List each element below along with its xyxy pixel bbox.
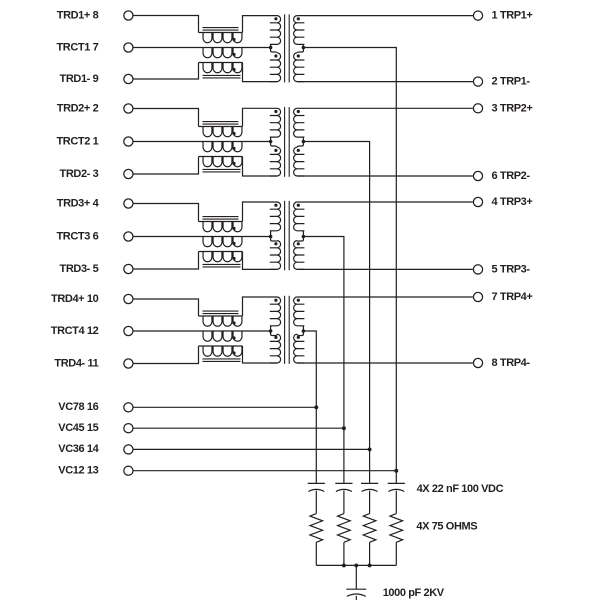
- choke CM3 core bottom bars: [203, 263, 241, 265]
- svg-text:4X 75 OHMS: 4X 75 OHMS: [416, 521, 477, 533]
- resistor R4 (75 ohms): [390, 514, 403, 543]
- wire TRD2+ lead: [134, 109, 199, 127]
- wire common bus: [316, 564, 396, 566]
- terminal TRD2- pin 3: [124, 169, 133, 178]
- choke CM4 polarity dots: [232, 321, 235, 324]
- wire T1 secondary top to terminal: [297, 15, 473, 17]
- svg-text:5 TRP3-: 5 TRP3-: [492, 263, 531, 275]
- wire C5 bottom lead: [355, 596, 357, 600]
- svg-text:TRD3- 5: TRD3- 5: [60, 263, 99, 275]
- transformer T3 core: [284, 201, 286, 270]
- choke CM2 top winding: [199, 127, 243, 137]
- transformer T4 secondary winding: [294, 297, 305, 363]
- capacitor C5 (1000 pF 2KV): [346, 588, 366, 590]
- wire T1 secondary bottom to terminal: [297, 81, 473, 83]
- svg-text:6 TRP2-: 6 TRP2-: [492, 170, 531, 182]
- svg-text:1000 pF 2KV: 1000 pF 2KV: [383, 587, 445, 599]
- wire T4 secondary top to terminal: [297, 296, 473, 298]
- wire T3 secondary bottom to terminal: [297, 268, 473, 270]
- terminal VC12 13: [124, 466, 133, 475]
- wire T2 secondary bottom to terminal: [297, 175, 473, 177]
- terminal 3 pin TRP2+: [473, 104, 482, 113]
- choke CM4 core bottom bars: [203, 358, 241, 360]
- wire choke CM3 to transformer T3 bottom: [243, 252, 278, 270]
- wire TRD1- lead: [134, 63, 199, 80]
- wire choke CM2 to transformer T2 top: [243, 108, 278, 126]
- wire cap C3 to resistor R3: [369, 491, 371, 514]
- capacitor C1 (22 nF): [308, 482, 325, 484]
- choke CM2 polarity dots: [232, 132, 235, 135]
- wire cap C4 to resistor R4: [395, 491, 397, 514]
- terminal TRD4- pin 11: [124, 359, 133, 368]
- svg-text:TRD2- 3: TRD2- 3: [60, 168, 99, 180]
- svg-text:TRCT1 7: TRCT1 7: [56, 41, 98, 53]
- svg-text:3 TRP2+: 3 TRP2+: [492, 102, 533, 114]
- transformer T3 secondary dots: [297, 204, 300, 207]
- junction VC78: [314, 405, 318, 409]
- choke CM1 top winding: [199, 33, 243, 43]
- transformer T4 primary dots: [274, 299, 277, 302]
- wire TRD3- lead: [134, 252, 199, 270]
- transformer T1 core: [284, 14, 286, 82]
- svg-text:TRD2+ 2: TRD2+ 2: [57, 102, 99, 114]
- svg-text:TRD1- 9: TRD1- 9: [60, 73, 99, 85]
- wire resistor R1 to bus: [315, 542, 317, 565]
- transformer T2 secondary dots: [297, 110, 300, 113]
- wire resistor R3 to bus: [369, 542, 371, 565]
- wire VC78 lead: [134, 406, 317, 408]
- wire choke CM4 to transformer T4 top: [243, 297, 278, 316]
- choke CM2 core top bars: [203, 121, 239, 123]
- svg-text:TRD1+ 8: TRD1+ 8: [57, 9, 99, 21]
- wire T4 secondary bottom to terminal: [297, 362, 473, 364]
- choke CM4 top winding: [199, 316, 243, 326]
- wire TRD4- lead: [134, 346, 199, 364]
- choke CM1 bottom winding: [199, 63, 243, 73]
- transformer T1 primary dots: [274, 17, 277, 20]
- terminal TRD4+ pin 10: [124, 294, 133, 303]
- svg-text:TRD4+ 10: TRD4+ 10: [51, 293, 99, 305]
- choke CM1 core top bars: [203, 27, 239, 29]
- junction bus-R3: [368, 563, 372, 567]
- wire VC45 lead: [134, 427, 344, 429]
- transformer T1 secondary dots: [297, 17, 300, 20]
- junction bus-R2: [342, 563, 346, 567]
- terminal 6 TRP2-: [473, 171, 482, 180]
- wire T3 secondary center tap drop: [303, 237, 344, 484]
- wire choke CM1 to transformer T1 bottom: [243, 63, 278, 82]
- wire TRD2- lead: [134, 157, 199, 175]
- choke CM3 bottom winding: [199, 252, 243, 262]
- junction VC45: [342, 426, 346, 430]
- terminal 8 TRP4-: [473, 358, 482, 367]
- transformer T2 primary dots: [274, 110, 277, 113]
- terminal TRCT2 pin 1: [124, 137, 133, 146]
- terminal 4 pin TRP3+: [473, 197, 482, 206]
- transformer T3 primary winding: [270, 202, 281, 269]
- transformer T3 secondary winding: [294, 202, 305, 269]
- junction VC12: [394, 469, 398, 473]
- junction VC36: [368, 447, 372, 451]
- svg-text:2 TRP1-: 2 TRP1-: [492, 76, 531, 88]
- wire TRD1+ lead: [134, 16, 199, 33]
- wire T4 secondary center tap drop: [303, 331, 316, 483]
- resistor R1 (75 ohms): [310, 514, 323, 543]
- wire T2 secondary center tap drop: [303, 142, 369, 484]
- terminal 2 TRP1-: [473, 77, 482, 86]
- choke CM3 polarity dots: [232, 227, 235, 230]
- capacitor C3 (22 nF): [361, 482, 378, 484]
- wire T3 secondary top to terminal: [297, 201, 473, 203]
- choke CM3 middle winding (TRCT3 line): [134, 237, 271, 247]
- svg-text:TRCT4 12: TRCT4 12: [51, 325, 99, 337]
- capacitor C2 (22 nF): [335, 482, 352, 484]
- wire cap C1 to resistor R1: [315, 491, 317, 514]
- terminal TRD3+ pin 4: [124, 199, 133, 208]
- choke CM2 middle winding (TRCT2 line): [134, 142, 271, 152]
- terminal VC78 16: [124, 403, 133, 412]
- choke CM1 core bottom bars: [203, 74, 241, 76]
- wire choke CM4 to transformer T4 bottom: [243, 346, 278, 363]
- terminal TRD2+ pin 2: [124, 104, 133, 113]
- transformer T1 secondary winding: [294, 16, 305, 82]
- wire choke CM2 to transformer T2 bottom: [243, 157, 278, 177]
- terminal TRCT1 pin 7: [124, 43, 133, 52]
- resistor R2 (75 ohms): [338, 514, 351, 543]
- terminal TRCT3 pin 6: [124, 232, 133, 241]
- svg-text:8 TRP4-: 8 TRP4-: [492, 357, 531, 369]
- transformer T4 primary winding: [270, 297, 281, 363]
- resistor R3 (75 ohms): [363, 514, 376, 543]
- choke CM2 core bottom bars: [203, 168, 241, 170]
- choke CM3 core top bars: [203, 216, 239, 218]
- choke CM1 middle winding (TRCT1 line): [134, 48, 271, 58]
- transformer T4 core: [284, 296, 286, 364]
- terminal VC45 15: [124, 424, 133, 433]
- transformer T4 secondary dots: [297, 299, 300, 302]
- choke CM4 middle winding (TRCT4 line): [134, 331, 271, 341]
- transformer T2 secondary winding: [294, 108, 305, 176]
- wire VC12 lead: [134, 470, 397, 472]
- choke CM4 core top bars: [203, 310, 239, 312]
- svg-text:VC12 13: VC12 13: [58, 465, 98, 477]
- svg-text:TRD3+ 4: TRD3+ 4: [57, 197, 100, 209]
- transformer T1 primary winding: [270, 16, 281, 82]
- terminal TRCT4 pin 12: [124, 326, 133, 335]
- transformer T2 core: [284, 107, 286, 177]
- wire VC36 lead: [134, 448, 370, 450]
- terminal TRD3- pin 5: [124, 264, 133, 273]
- wire cap C2 to resistor R2: [343, 491, 345, 514]
- svg-text:VC45 15: VC45 15: [58, 422, 98, 434]
- svg-text:4X 22 nF 100 VDC: 4X 22 nF 100 VDC: [417, 483, 504, 495]
- svg-text:1 TRP1+: 1 TRP1+: [492, 10, 533, 22]
- wire resistor R4 to bus: [395, 542, 397, 565]
- junction bus-center: [354, 563, 358, 567]
- wire T1 secondary center tap drop: [303, 48, 396, 484]
- capacitor C4 (22 nF): [388, 482, 405, 484]
- terminal TRD1- pin 9: [124, 74, 133, 83]
- wire T2 secondary top to terminal: [297, 107, 473, 109]
- choke CM2 bottom winding: [199, 157, 243, 167]
- choke CM1 polarity dots: [232, 38, 235, 41]
- terminal 7 pin TRP4+: [473, 292, 482, 301]
- wire TRD3+ lead: [134, 204, 199, 222]
- wire resistor R2 to bus: [343, 542, 345, 565]
- choke CM4 bottom winding: [199, 346, 243, 356]
- transformer T3 primary dots: [274, 204, 277, 207]
- wire TRD4+ lead: [134, 299, 199, 316]
- svg-text:VC36 14: VC36 14: [58, 443, 99, 455]
- wire choke CM1 to transformer T1 top: [243, 16, 278, 33]
- svg-text:4 TRP3+: 4 TRP3+: [492, 196, 533, 208]
- svg-text:7 TRP4+: 7 TRP4+: [492, 291, 533, 303]
- svg-text:TRCT3 6: TRCT3 6: [56, 230, 98, 242]
- transformer T2 primary winding: [270, 108, 281, 176]
- wire bus to C5: [355, 565, 357, 589]
- svg-text:TRCT2 1: TRCT2 1: [56, 135, 98, 147]
- svg-text:VC78 16: VC78 16: [58, 401, 98, 413]
- wire choke CM3 to transformer T3 top: [243, 202, 278, 222]
- svg-text:TRD4- 11: TRD4- 11: [54, 357, 98, 369]
- terminal 1 pin TRP1+: [473, 11, 482, 20]
- terminal TRD1+ pin 8: [124, 11, 133, 20]
- terminal 5 TRP3-: [473, 265, 482, 274]
- choke CM3 top winding: [199, 222, 243, 232]
- terminal VC36 14: [124, 445, 133, 454]
